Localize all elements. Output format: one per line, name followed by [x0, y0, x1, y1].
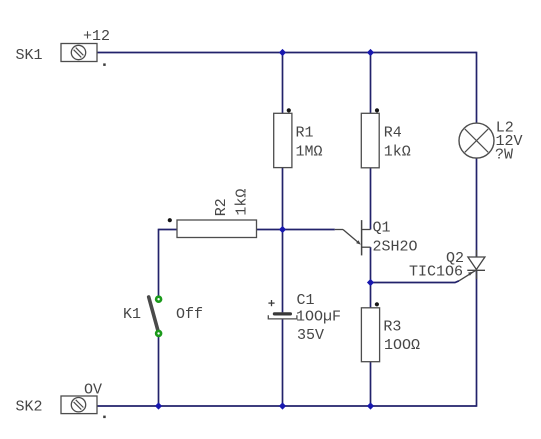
label Q2 [446, 250, 464, 267]
svg-text:R4: R4 [384, 125, 402, 142]
wire Q2 cathode to 0V rail [476, 270, 478, 407]
svg-text:R3: R3 [383, 319, 401, 336]
wire lamp bottom to Q2 anode [476, 158, 478, 257]
wire 0V rail bottom [97, 405, 477, 407]
pin dot R1 [287, 108, 291, 112]
pin dot R3 [375, 302, 379, 306]
wire node B to C1 [282, 230, 284, 313]
svg-text:35V: 35V [297, 327, 324, 344]
junction 0V C1 [279, 402, 286, 409]
label 100Ω [384, 337, 420, 354]
wire +12 rail top [97, 52, 477, 54]
wire K1 bottom vertical [158, 334, 160, 407]
label Q1 [373, 220, 391, 237]
label 12V [496, 133, 523, 150]
svg-text:Off: Off [176, 306, 203, 323]
junction node top R1 [279, 49, 286, 56]
junction node top R4 [367, 49, 374, 56]
pin dot SK1 [103, 63, 106, 66]
wire R1 top [282, 53, 284, 114]
label 0V [84, 382, 102, 399]
svg-text:1OOµF: 1OOµF [296, 309, 341, 326]
junction 0V K1 [155, 402, 162, 409]
resistor R4 [361, 113, 379, 168]
label R2 (rotated) [213, 198, 230, 216]
wire R3 bottom to 0V rail [370, 362, 372, 406]
svg-text:SK1: SK1 [16, 47, 43, 64]
resistor R1 [274, 113, 292, 167]
pin dot SK2 [103, 416, 106, 419]
svg-text:2SH2O: 2SH2O [373, 239, 418, 256]
wire R1 bottom to node B [282, 168, 284, 230]
label 35V [297, 327, 324, 344]
svg-text:?W: ?W [495, 146, 513, 163]
label 1kΩ R2 (rotated) [234, 189, 251, 216]
wire R2 right to node B [257, 229, 283, 231]
svg-text:K1: K1 [123, 306, 141, 323]
svg-text:1kΩ: 1kΩ [234, 189, 251, 216]
wire gate node to R3 [370, 283, 372, 308]
label 1MΩ [296, 144, 323, 161]
junction gate node [367, 279, 374, 286]
svg-text:Q1: Q1 [373, 220, 391, 237]
resistor R3 [361, 308, 379, 362]
label SK2 [16, 399, 43, 416]
label L2 [496, 120, 514, 137]
label 1kΩ [384, 144, 411, 161]
switch K1 [149, 297, 161, 336]
svg-text:OV: OV [84, 382, 102, 399]
resistor R2 [177, 220, 257, 238]
svg-text:R1: R1 [296, 125, 314, 142]
wire K1 top vertical [158, 229, 160, 299]
terminal SK1 [61, 44, 97, 62]
svg-text:R2: R2 [213, 198, 230, 216]
label R3 [383, 319, 401, 336]
svg-text:SK2: SK2 [16, 399, 43, 416]
svg-text:TIC1O6: TIC1O6 [409, 264, 463, 281]
junction 0V R3 [367, 402, 374, 409]
label +12 [83, 28, 110, 45]
label TIC106 [409, 264, 463, 281]
label 100µF [296, 309, 341, 326]
label 2SH20 [373, 239, 418, 256]
label Off [176, 306, 203, 323]
capacitor C1 [268, 300, 297, 319]
svg-text:+12: +12 [83, 28, 110, 45]
lamp L2 [459, 123, 494, 158]
wire node B to Q1 emitter [283, 229, 335, 231]
svg-text:1MΩ: 1MΩ [296, 144, 323, 161]
pin dot R2 [168, 218, 172, 222]
label R1 [296, 125, 314, 142]
transistor Q1 (UJT) [335, 220, 371, 255]
label K1 [123, 306, 141, 323]
wire K1 branch left horizontal [159, 229, 178, 231]
wire C1 to 0V rail [282, 319, 284, 406]
label ?W [495, 146, 513, 163]
label SK1 [16, 47, 43, 64]
wire Q1 B1 to gate node [370, 247, 372, 282]
terminal SK2 [61, 396, 97, 414]
label C1 [297, 292, 315, 309]
wire R4 top [370, 53, 372, 114]
svg-text:1kΩ: 1kΩ [384, 144, 411, 161]
svg-text:1OOΩ: 1OOΩ [384, 337, 420, 354]
wire R4 bottom to Q1 B2 [370, 168, 372, 230]
svg-text:C1: C1 [297, 292, 315, 309]
wire lamp drop from +12 rail [476, 52, 478, 124]
pin dot R4 [375, 108, 379, 112]
thyristor Q2 [459, 250, 485, 281]
label R4 [384, 125, 402, 142]
junction node B (R2/C1/emitter) [279, 226, 286, 233]
wire gate horizontal to Q2 [371, 281, 460, 283]
